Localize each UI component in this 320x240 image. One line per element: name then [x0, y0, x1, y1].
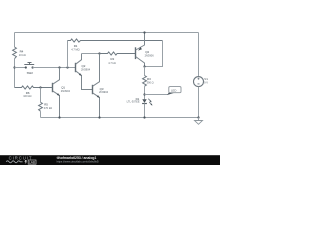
resistor R3 390 ohm	[143, 67, 154, 100]
node junction left-switch	[13, 66, 15, 68]
wire top rail	[15, 28, 199, 38]
resistor R4 10k	[13, 47, 26, 68]
svg-text:Q1: Q1	[61, 86, 65, 90]
wire Q2 collector to node	[82, 49, 100, 59]
transistor Q1	[53, 68, 71, 118]
node junction collectors/R2	[98, 52, 100, 54]
svg-text:Q4: Q4	[145, 50, 149, 54]
node junction top rail / Q4 emitter	[143, 31, 145, 33]
svg-text:R3: R3	[147, 77, 151, 81]
svg-text:SW2: SW2	[27, 71, 34, 75]
svg-text:R6: R6	[26, 91, 30, 95]
wire left column lower	[10, 68, 20, 88]
voltage source V1 9V	[194, 33, 209, 118]
svg-text:tihofmarlo6253 / analog1: tihofmarlo6253 / analog1	[57, 156, 97, 160]
svg-text:R1: R1	[74, 44, 78, 48]
resistor R1 4.7M feedback	[68, 39, 163, 68]
resistor R2 4.7k	[100, 52, 136, 65]
node junction Q3 emitter bottom	[98, 116, 100, 118]
watermark bar	[0, 155, 220, 165]
svg-text:D1: D1	[136, 97, 140, 101]
LED D1	[127, 97, 153, 118]
wire bottom rail	[41, 113, 199, 123]
node junction R1 left	[66, 66, 68, 68]
switch SW2	[24, 63, 34, 76]
node junction Q1 collector	[58, 66, 60, 68]
transistor Q3	[93, 54, 109, 118]
resistor R6 100k	[15, 86, 53, 98]
annotation bubble	[167, 87, 181, 95]
svg-text:R2: R2	[111, 57, 115, 61]
node junction LED bottom	[143, 116, 145, 118]
transistor Q4 PNP	[136, 33, 155, 67]
node junction V1 / ground	[197, 116, 199, 118]
node junction Q4 collector / R1	[143, 65, 145, 67]
wire annotation anchor	[145, 90, 169, 100]
wire switch row right	[33, 63, 76, 73]
node junction R6/R5	[39, 86, 41, 88]
node junction Q1 emitter bottom	[58, 116, 60, 118]
node junction annotation anchor	[143, 93, 145, 95]
transistor Q2	[76, 54, 93, 90]
resistor R5 470k	[39, 88, 53, 118]
svg-text:R5: R5	[44, 103, 48, 107]
svg-text:Q3: Q3	[100, 87, 104, 91]
wire switch row left	[15, 63, 26, 73]
ground	[195, 118, 203, 125]
svg-text:Q2: Q2	[82, 64, 86, 68]
svg-text:LED: LED	[171, 88, 176, 92]
svg-text:LAB: LAB	[29, 160, 35, 164]
svg-text:R4: R4	[20, 50, 24, 54]
svg-text:V1: V1	[204, 77, 208, 81]
wire left column upper	[10, 33, 20, 48]
